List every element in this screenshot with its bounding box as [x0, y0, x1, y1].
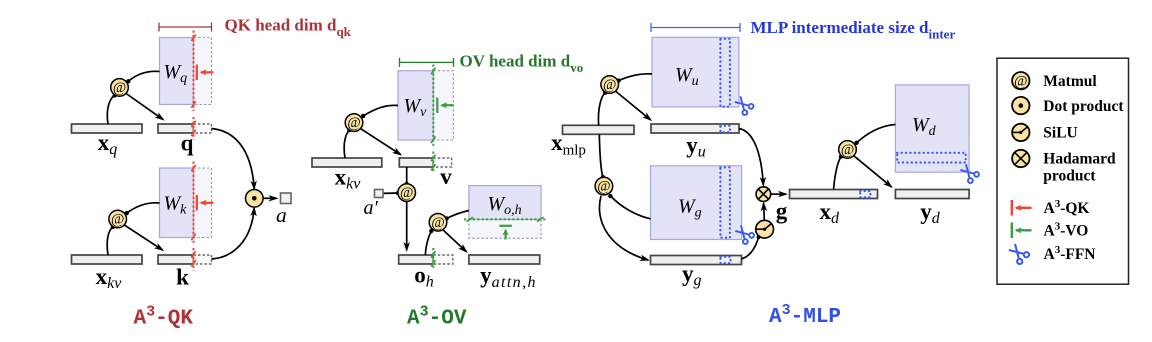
- svg-text:A3-MLP: A3-MLP: [769, 302, 841, 329]
- svg-text:@: @: [431, 215, 444, 231]
- svg-text:Dot product: Dot product: [1043, 98, 1124, 115]
- svg-text:@: @: [111, 212, 124, 228]
- svg-text:A3-OV: A3-OV: [407, 304, 467, 331]
- svg-text:A3-FFN: A3-FFN: [1044, 244, 1096, 263]
- svg-text:@: @: [113, 80, 126, 96]
- svg-text:g: g: [776, 199, 788, 224]
- svg-text:A3-QK: A3-QK: [134, 304, 194, 331]
- svg-text:@: @: [400, 185, 413, 201]
- svg-text:@: @: [841, 142, 854, 158]
- svg-text:v: v: [440, 164, 452, 189]
- svg-text:k: k: [176, 265, 189, 290]
- svg-text:Hadamard: Hadamard: [1043, 151, 1116, 168]
- svg-text:a: a: [276, 203, 287, 227]
- svg-text:@: @: [1014, 73, 1027, 89]
- svg-text:@: @: [597, 179, 610, 195]
- svg-text:A3-QK: A3-QK: [1044, 198, 1090, 217]
- svg-text:A3-VO: A3-VO: [1044, 221, 1089, 240]
- svg-text:product: product: [1043, 168, 1096, 185]
- svg-text:@: @: [603, 77, 616, 93]
- svg-text:Matmul: Matmul: [1043, 73, 1097, 90]
- svg-text:q: q: [181, 131, 194, 156]
- svg-text:SiLU: SiLU: [1043, 125, 1077, 142]
- svg-text:@: @: [347, 115, 360, 131]
- svg-text:a′: a′: [364, 197, 379, 219]
